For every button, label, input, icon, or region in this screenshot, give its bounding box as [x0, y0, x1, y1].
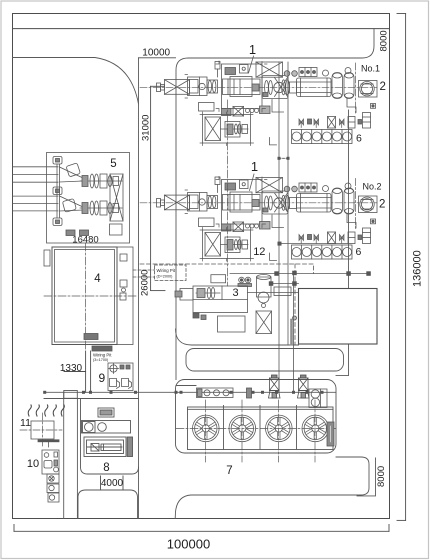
svg-text:8000: 8000 [376, 466, 387, 487]
svg-text:No.2: No.2 [363, 182, 382, 192]
svg-text:1330: 1330 [60, 363, 83, 374]
svg-text:6: 6 [356, 132, 362, 144]
svg-text:2: 2 [380, 81, 386, 93]
svg-text:(3=1700): (3=1700) [93, 358, 109, 362]
svg-text:11: 11 [20, 417, 31, 429]
svg-text:(D=2000): (D=2000) [157, 275, 174, 279]
svg-text:136000: 136000 [412, 250, 424, 287]
svg-text:31000: 31000 [141, 115, 152, 141]
svg-text:8000: 8000 [379, 30, 390, 51]
svg-text:No.1: No.1 [361, 64, 380, 74]
svg-text:7: 7 [226, 465, 232, 477]
svg-text:Wiring Pit: Wiring Pit [93, 353, 112, 358]
svg-text:2: 2 [379, 199, 385, 211]
svg-text:5: 5 [110, 158, 116, 170]
svg-text:4: 4 [94, 273, 101, 285]
svg-text:9: 9 [98, 371, 105, 385]
svg-text:10000: 10000 [142, 47, 170, 58]
svg-text:6: 6 [356, 246, 362, 258]
svg-text:3: 3 [232, 287, 238, 299]
svg-text:1: 1 [251, 159, 258, 174]
svg-text:26000: 26000 [140, 270, 151, 296]
svg-text:4000: 4000 [101, 478, 124, 489]
svg-text:100000: 100000 [167, 536, 210, 551]
svg-text:8: 8 [103, 462, 109, 474]
svg-text:1: 1 [249, 42, 256, 57]
svg-text:12: 12 [253, 246, 265, 258]
svg-text:Wiring Pit: Wiring Pit [157, 268, 176, 273]
svg-text:10: 10 [27, 458, 39, 470]
